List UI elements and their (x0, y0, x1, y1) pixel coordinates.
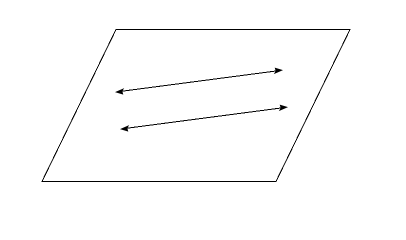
lower right arrowhead (279, 105, 288, 112)
upper right arrowhead (274, 68, 283, 75)
upper line segment (122, 71, 276, 91)
upper left arrowhead (115, 88, 124, 95)
lower line segment (127, 108, 281, 128)
lower left arrowhead (120, 125, 129, 132)
plane (parallelogram) (42, 30, 350, 182)
